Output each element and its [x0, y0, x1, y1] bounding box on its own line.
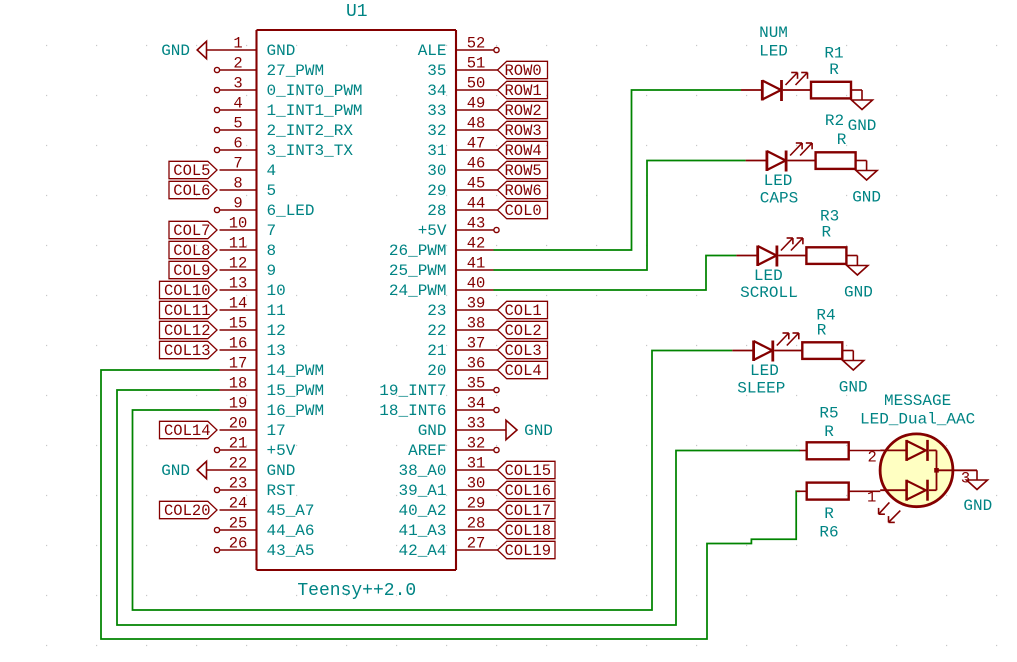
- svg-text:29: 29: [427, 182, 446, 200]
- svg-text:R5: R5: [819, 405, 838, 423]
- svg-text:44_A6: 44_A6: [267, 522, 315, 540]
- svg-text:GND: GND: [418, 422, 447, 440]
- dual LED MESSAGE LED_Dual_AAC body circle: [880, 434, 953, 507]
- U1 pin 15 (12) left stub + number + name: [220, 315, 286, 341]
- unconnected-pin circle at U1 pin 34: [494, 407, 499, 412]
- LED SLEEP name label: [737, 362, 785, 398]
- dual LED pin 2 number: [868, 449, 877, 467]
- U1 pin 19 (16_PWM) left stub + number + name: [220, 395, 325, 421]
- net label COL4 at U1 pin 36: [494, 361, 548, 380]
- svg-text:14_PWM: 14_PWM: [267, 362, 325, 380]
- dual LED lower diode: [880, 480, 936, 501]
- net label COL0 at U1 pin 44: [494, 201, 548, 220]
- svg-text:GND: GND: [161, 462, 190, 480]
- U1 pin 37 (21) right stub + number + name: [427, 335, 493, 361]
- LED CAPS name label: [760, 172, 798, 207]
- net label ROW0 at U1 pin 51: [494, 61, 548, 80]
- svg-text:13: 13: [229, 275, 248, 293]
- wire U1 pin40 (24_PWM) to LED SCROLL: [494, 256, 737, 291]
- U1 pin 4 (1_INT1_PWM) left stub + number + name: [220, 95, 363, 121]
- svg-text:35: 35: [467, 375, 486, 393]
- svg-text:33: 33: [427, 102, 446, 120]
- U1 pin 36 (20) right stub + number + name: [427, 355, 493, 381]
- svg-text:COL1: COL1: [505, 302, 542, 320]
- svg-text:COL6: COL6: [173, 182, 210, 200]
- svg-text:10: 10: [229, 215, 248, 233]
- svg-text:GND: GND: [852, 189, 881, 207]
- U1 pin 29 (40_A2) right stub + number + name: [398, 495, 493, 521]
- svg-text:45_A7: 45_A7: [267, 502, 315, 520]
- resistor R4 reference: [816, 307, 835, 325]
- svg-text:30: 30: [467, 475, 486, 493]
- svg-text:52: 52: [467, 35, 486, 53]
- svg-text:5: 5: [267, 182, 277, 200]
- svg-text:38_A0: 38_A0: [398, 462, 446, 480]
- svg-text:COL13: COL13: [164, 342, 211, 360]
- svg-text:RST: RST: [267, 482, 296, 500]
- U1 pin 11 (8) left stub + number + name: [220, 235, 277, 261]
- net label COL14 at U1 pin 20: [160, 421, 218, 440]
- junction dot at dual LED common cathode: [934, 468, 939, 473]
- U1 pin 18 (15_PWM) left stub + number + name: [220, 375, 325, 401]
- net label COL12 at U1 pin 15: [160, 321, 218, 340]
- resistor R2 reference: [825, 112, 844, 130]
- svg-text:3: 3: [961, 470, 970, 488]
- net label COL2 at U1 pin 38: [494, 321, 548, 340]
- svg-text:ROW4: ROW4: [505, 142, 542, 160]
- svg-text:R: R: [824, 505, 834, 523]
- svg-text:10: 10: [267, 282, 286, 300]
- svg-text:48: 48: [467, 115, 486, 133]
- U1 pin 50 (34) right stub + number + name: [427, 75, 493, 101]
- svg-text:18: 18: [229, 375, 248, 393]
- net label ROW4 at U1 pin 47: [494, 141, 548, 160]
- net label COL10 at U1 pin 13: [160, 281, 218, 300]
- U1 pin 1 (GND) left stub + number + name: [220, 35, 296, 61]
- unconnected-pin circle at U1 pin 9: [214, 207, 219, 212]
- svg-text:GND: GND: [839, 378, 868, 396]
- svg-text:44: 44: [467, 195, 486, 213]
- svg-text:GND: GND: [524, 422, 553, 440]
- svg-text:COL10: COL10: [164, 282, 211, 300]
- svg-text:20: 20: [427, 362, 446, 380]
- svg-text:1_INT1_PWM: 1_INT1_PWM: [267, 102, 363, 120]
- resistor R6: [796, 483, 880, 500]
- net label ROW3 at U1 pin 48: [494, 121, 548, 140]
- svg-text:ROW3: ROW3: [505, 122, 542, 140]
- svg-text:12: 12: [267, 322, 286, 340]
- dual LED reference MESSAGE: [884, 392, 951, 410]
- resistor R4 value R: [817, 322, 827, 340]
- U1 pin 20 (17) left stub + number + name: [220, 415, 286, 441]
- svg-text:12: 12: [229, 255, 248, 273]
- U1 pin 6 (3_INT3_TX) left stub + number + name: [220, 135, 354, 161]
- svg-text:COL17: COL17: [505, 502, 552, 520]
- svg-text:38: 38: [467, 315, 486, 333]
- svg-text:33: 33: [467, 415, 486, 433]
- svg-text:1: 1: [233, 35, 242, 53]
- ground symbol GND after R4: [839, 361, 868, 397]
- svg-text:U1: U1: [346, 2, 368, 22]
- svg-text:5: 5: [233, 115, 242, 133]
- svg-text:15_PWM: 15_PWM: [267, 382, 325, 400]
- svg-text:COL18: COL18: [505, 522, 552, 540]
- svg-text:6_LED: 6_LED: [267, 202, 315, 220]
- unconnected-pin circle at U1 pin 6: [214, 147, 219, 152]
- unconnected-pin circle at U1 pin 26: [214, 547, 219, 552]
- svg-text:43: 43: [467, 215, 486, 233]
- U1 pin 38 (22) right stub + number + name: [427, 315, 493, 341]
- unconnected-pin circle at U1 pin 4: [214, 107, 219, 112]
- svg-text:R1: R1: [824, 45, 843, 63]
- resistor R6 value R: [824, 505, 834, 523]
- svg-text:32: 32: [427, 122, 446, 140]
- svg-text:27: 27: [467, 535, 486, 553]
- U1 pin 2 (27_PWM) left stub + number + name: [220, 55, 325, 81]
- dual LED pin 1 number: [867, 489, 876, 507]
- net label COL8 at U1 pin 11: [169, 241, 217, 260]
- svg-text:LED: LED: [754, 267, 783, 285]
- LED CAPS: [746, 143, 816, 172]
- svg-text:42: 42: [467, 235, 486, 253]
- svg-text:+5V: +5V: [418, 222, 447, 240]
- svg-text:51: 51: [467, 55, 486, 73]
- svg-text:COL15: COL15: [505, 462, 552, 480]
- unconnected-pin circle at U1 pin 35: [494, 387, 499, 392]
- svg-text:17: 17: [267, 422, 286, 440]
- svg-text:13: 13: [267, 342, 286, 360]
- U1 pin 40 (24_PWM) right stub + number + name: [389, 275, 494, 301]
- svg-text:37: 37: [467, 335, 486, 353]
- svg-text:COL20: COL20: [164, 502, 211, 520]
- svg-text:R: R: [837, 131, 847, 149]
- svg-text:0_INT0_PWM: 0_INT0_PWM: [267, 82, 363, 100]
- U1 pin 41 (25_PWM) right stub + number + name: [389, 255, 494, 281]
- dual LED emission arrows: [879, 502, 901, 522]
- svg-text:21: 21: [427, 342, 446, 360]
- net label ROW2 at U1 pin 49: [494, 101, 548, 120]
- net label COL20 at U1 pin 24: [160, 501, 218, 520]
- U1 pin 32 (AREF) right stub + number + name: [408, 435, 493, 461]
- U1 pin 14 (11) left stub + number + name: [220, 295, 286, 321]
- resistor R2: [816, 152, 867, 170]
- svg-text:GND: GND: [844, 283, 873, 301]
- svg-text:30: 30: [427, 162, 446, 180]
- svg-text:8: 8: [233, 175, 242, 193]
- svg-text:11: 11: [267, 302, 286, 320]
- svg-text:16: 16: [229, 335, 248, 353]
- svg-text:AREF: AREF: [408, 442, 446, 460]
- svg-text:28: 28: [427, 202, 446, 220]
- U1 pin 45 (29) right stub + number + name: [427, 175, 493, 201]
- svg-text:LED: LED: [750, 362, 779, 380]
- svg-text:ROW1: ROW1: [505, 82, 542, 100]
- svg-text:GND: GND: [267, 462, 296, 480]
- U1 pin 10 (7) left stub + number + name: [220, 215, 277, 241]
- net label COL5 at U1 pin 7: [169, 161, 217, 180]
- net label COL11 at U1 pin 14: [160, 301, 218, 320]
- LED SCROLL: [736, 238, 806, 267]
- ground symbol GND at U1 pin 22: [161, 461, 219, 480]
- unconnected-pin circle at U1 pin 23: [214, 487, 219, 492]
- svg-text:ALE: ALE: [418, 42, 447, 60]
- svg-text:COL0: COL0: [505, 202, 542, 220]
- svg-text:43_A5: 43_A5: [267, 542, 315, 560]
- U1 pin 34 (18_INT6) right stub + number + name: [379, 395, 493, 421]
- svg-text:GND: GND: [963, 497, 992, 515]
- svg-text:MESSAGE: MESSAGE: [884, 392, 951, 410]
- svg-text:29: 29: [467, 495, 486, 513]
- U1 pin 12 (9) left stub + number + name: [220, 255, 277, 281]
- wire U1 pin18 (15_PWM) to resistor R5: [117, 390, 800, 625]
- net label COL17 at U1 pin 29: [494, 501, 556, 520]
- U1 pin 9 (6_LED) left stub + number + name: [220, 195, 315, 221]
- resistor R1 value R: [829, 61, 839, 79]
- svg-text:COL8: COL8: [173, 242, 210, 260]
- svg-text:R: R: [821, 223, 831, 241]
- svg-text:SLEEP: SLEEP: [737, 380, 785, 398]
- U1 pin 7 (4) left stub + number + name: [220, 155, 277, 181]
- svg-text:25: 25: [229, 515, 248, 533]
- svg-text:R6: R6: [819, 524, 838, 542]
- svg-text:46: 46: [467, 155, 486, 173]
- U1 pin 49 (33) right stub + number + name: [427, 95, 493, 121]
- ground symbol GND after R2: [852, 171, 881, 207]
- U1 pin 44 (28) right stub + number + name: [427, 195, 493, 221]
- ground symbol GND at U1 pin 33: [494, 420, 553, 440]
- resistor R3 reference: [820, 208, 839, 226]
- svg-text:24: 24: [229, 495, 248, 513]
- net label COL3 at U1 pin 37: [494, 341, 548, 360]
- svg-text:39_A1: 39_A1: [398, 482, 446, 500]
- svg-text:SCROLL: SCROLL: [740, 284, 798, 302]
- wire U1 pin42 (26_PWM) to LED NUM: [494, 90, 742, 250]
- svg-text:R: R: [817, 322, 827, 340]
- unconnected-pin circle at U1 pin 25: [214, 527, 219, 532]
- svg-text:19: 19: [229, 395, 248, 413]
- svg-text:26: 26: [229, 535, 248, 553]
- U1 pin 52 (ALE) right stub + number + name: [418, 35, 494, 61]
- dual LED value LED_Dual_AAC: [860, 411, 975, 429]
- resistor R3 value R: [821, 223, 831, 241]
- svg-text:GND: GND: [267, 42, 296, 60]
- svg-text:3_INT3_TX: 3_INT3_TX: [267, 142, 354, 160]
- svg-text:COL19: COL19: [505, 542, 552, 560]
- svg-text:8: 8: [267, 242, 277, 260]
- resistor R4: [802, 342, 853, 360]
- resistor R1 reference: [824, 45, 843, 63]
- svg-text:26_PWM: 26_PWM: [389, 242, 447, 260]
- svg-text:LED: LED: [764, 172, 793, 190]
- svg-text:9: 9: [233, 195, 242, 213]
- svg-text:COL7: COL7: [173, 222, 210, 240]
- U1 pin 3 (0_INT0_PWM) left stub + number + name: [220, 75, 363, 101]
- svg-text:22: 22: [427, 322, 446, 340]
- svg-text:27_PWM: 27_PWM: [267, 62, 325, 80]
- U1 pin 24 (45_A7) left stub + number + name: [220, 495, 315, 521]
- svg-text:R: R: [824, 423, 834, 441]
- svg-text:3: 3: [233, 75, 242, 93]
- svg-text:41_A3: 41_A3: [398, 522, 446, 540]
- net label COL15 at U1 pin 31: [494, 461, 556, 480]
- svg-text:25_PWM: 25_PWM: [389, 262, 447, 280]
- U1 pin 16 (13) left stub + number + name: [220, 335, 286, 361]
- U1 pin 28 (41_A3) right stub + number + name: [398, 515, 493, 541]
- svg-text:LED_Dual_AAC: LED_Dual_AAC: [860, 411, 975, 429]
- ground symbol GND after R1: [848, 100, 877, 135]
- dual LED pin 3 number: [961, 470, 970, 488]
- resistor R5 reference: [819, 405, 838, 423]
- svg-text:41: 41: [467, 255, 486, 273]
- svg-text:COL16: COL16: [505, 482, 552, 500]
- svg-text:31: 31: [427, 142, 446, 160]
- svg-text:15: 15: [229, 315, 248, 333]
- LED NUM name label: [759, 24, 788, 61]
- net label COL19 at U1 pin 27: [494, 541, 556, 560]
- svg-text:7: 7: [233, 155, 242, 173]
- svg-text:14: 14: [229, 295, 248, 313]
- net label COL13 at U1 pin 16: [160, 341, 218, 360]
- net label COL16 at U1 pin 30: [494, 481, 556, 500]
- unconnected-pin circle at U1 pin 5: [214, 127, 219, 132]
- svg-text:COL2: COL2: [505, 322, 542, 340]
- unconnected-pin circle at U1 pin 32: [494, 447, 499, 452]
- svg-text:COL9: COL9: [173, 262, 210, 280]
- svg-text:21: 21: [229, 435, 248, 453]
- U1 pin 43 (+5V) right stub + number + name: [418, 215, 494, 241]
- wire U1 pin19 (16_PWM) to LED SLEEP: [133, 351, 733, 611]
- U1 pin 27 (42_A4) right stub + number + name: [398, 535, 493, 561]
- unconnected-pin circle at U1 pin 43: [494, 227, 499, 232]
- svg-text:47: 47: [467, 135, 486, 153]
- U1 pin 22 (GND) left stub + number + name: [220, 455, 296, 481]
- U1 pin 47 (31) right stub + number + name: [427, 135, 493, 161]
- svg-text:20: 20: [229, 415, 248, 433]
- unconnected-pin circle at U1 pin 52: [494, 47, 499, 52]
- U1 pin 46 (30) right stub + number + name: [427, 155, 493, 181]
- U1 pin 39 (23) right stub + number + name: [427, 295, 493, 321]
- U1 pin 5 (2_INT2_RX) left stub + number + name: [220, 115, 354, 141]
- svg-text:50: 50: [467, 75, 486, 93]
- resistor R2 value R: [837, 131, 847, 149]
- wire U1 pin17 (14_PWM) to resistor R6 (with jog): [101, 370, 800, 639]
- net label COL6 at U1 pin 8: [169, 181, 217, 200]
- svg-text:34: 34: [467, 395, 486, 413]
- svg-text:+5V: +5V: [267, 442, 296, 460]
- svg-text:GND: GND: [161, 42, 190, 60]
- net label ROW5 at U1 pin 46: [494, 161, 548, 180]
- svg-text:COL5: COL5: [173, 162, 210, 180]
- resistor R1: [811, 82, 862, 100]
- U1 pin 42 (26_PWM) right stub + number + name: [389, 235, 494, 261]
- svg-text:42_A4: 42_A4: [398, 542, 446, 560]
- net label COL18 at U1 pin 28: [494, 521, 556, 540]
- svg-text:ROW6: ROW6: [505, 182, 542, 200]
- svg-text:COL12: COL12: [164, 322, 211, 340]
- U1 pin 23 (RST) left stub + number + name: [220, 475, 296, 501]
- U1 pin 51 (35) right stub + number + name: [427, 55, 493, 81]
- net label ROW6 at U1 pin 45: [494, 181, 548, 200]
- reference designator U1: [346, 2, 368, 22]
- LED NUM: [741, 73, 811, 102]
- svg-text:32: 32: [467, 435, 486, 453]
- unconnected-pin circle at U1 pin 21: [214, 447, 219, 452]
- svg-text:GND: GND: [848, 117, 877, 135]
- dual LED internal cathode bus wire: [937, 450, 978, 490]
- svg-text:COL14: COL14: [164, 422, 211, 440]
- svg-text:2_INT2_RX: 2_INT2_RX: [267, 122, 354, 140]
- svg-text:28: 28: [467, 515, 486, 533]
- U1 pin 33 (GND) right stub + number + name: [418, 415, 494, 441]
- net label COL1 at U1 pin 39: [494, 301, 548, 320]
- svg-text:17: 17: [229, 355, 248, 373]
- U1 pin 30 (39_A1) right stub + number + name: [398, 475, 493, 501]
- net label COL7 at U1 pin 10: [169, 221, 217, 240]
- svg-text:COL11: COL11: [164, 302, 211, 320]
- U1 pin 31 (38_A0) right stub + number + name: [398, 455, 493, 481]
- ground symbol GND at dual LED pin 3: [963, 470, 992, 515]
- svg-text:ROW2: ROW2: [505, 102, 542, 120]
- resistor R6 reference: [819, 524, 838, 542]
- svg-text:LED: LED: [759, 43, 788, 61]
- svg-text:34: 34: [427, 82, 446, 100]
- svg-text:40: 40: [467, 275, 486, 293]
- value Teensy++2.0: [297, 581, 416, 601]
- svg-text:11: 11: [229, 235, 248, 253]
- U1 pin 17 (14_PWM) left stub + number + name: [220, 355, 325, 381]
- svg-text:2: 2: [233, 55, 242, 73]
- U1 pin 26 (43_A5) left stub + number + name: [220, 535, 315, 561]
- svg-text:23: 23: [427, 302, 446, 320]
- svg-text:40_A2: 40_A2: [398, 502, 446, 520]
- U1 pin 21 (+5V) left stub + number + name: [220, 435, 296, 461]
- IC U1 Teensy++2.0 body: [257, 30, 457, 570]
- svg-text:COL3: COL3: [505, 342, 542, 360]
- net label ROW1 at U1 pin 50: [494, 81, 548, 100]
- svg-text:36: 36: [467, 355, 486, 373]
- svg-text:16_PWM: 16_PWM: [267, 402, 325, 420]
- U1 pin 8 (5) left stub + number + name: [220, 175, 277, 201]
- svg-text:2: 2: [868, 449, 877, 467]
- resistor R5 value R: [824, 423, 834, 441]
- U1 pin 35 (19_INT7) right stub + number + name: [379, 375, 493, 401]
- svg-text:COL4: COL4: [505, 362, 542, 380]
- dual LED upper diode: [880, 440, 936, 461]
- resistor R3: [806, 247, 857, 265]
- U1 pin 25 (44_A6) left stub + number + name: [220, 515, 315, 541]
- U1 pin 48 (32) right stub + number + name: [427, 115, 493, 141]
- svg-text:49: 49: [467, 95, 486, 113]
- svg-text:6: 6: [233, 135, 242, 153]
- svg-text:23: 23: [229, 475, 248, 493]
- resistor R5: [800, 442, 881, 459]
- svg-text:45: 45: [467, 175, 486, 193]
- LED SCROLL name label: [740, 267, 798, 302]
- svg-text:1: 1: [867, 489, 876, 507]
- svg-text:18_INT6: 18_INT6: [379, 402, 446, 420]
- svg-text:4: 4: [267, 162, 277, 180]
- svg-text:CAPS: CAPS: [760, 189, 798, 207]
- svg-text:35: 35: [427, 62, 446, 80]
- net label COL9 at U1 pin 12: [169, 261, 217, 280]
- svg-text:Teensy++2.0: Teensy++2.0: [297, 581, 416, 601]
- svg-text:ROW0: ROW0: [505, 62, 542, 80]
- U1 pin 13 (10) left stub + number + name: [220, 275, 286, 301]
- wire U1 pin41 (25_PWM) to LED CAPS: [494, 161, 746, 271]
- svg-text:24_PWM: 24_PWM: [389, 282, 447, 300]
- svg-text:31: 31: [467, 455, 486, 473]
- unconnected-pin circle at U1 pin 3: [214, 87, 219, 92]
